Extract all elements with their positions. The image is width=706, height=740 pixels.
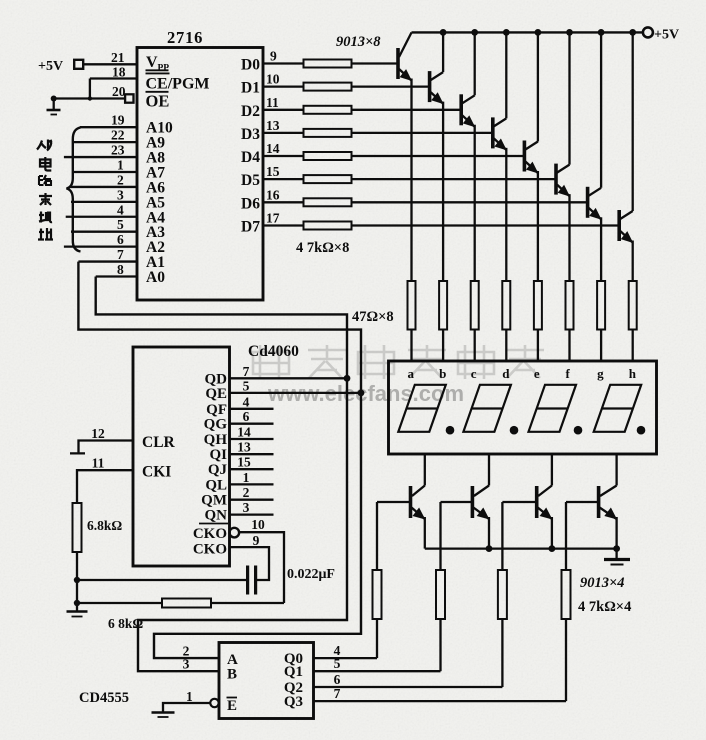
svg-text:QF: QF bbox=[206, 402, 227, 418]
wire: R27 to display segment h bbox=[632, 330, 634, 362]
resistor R22 47 ohm bbox=[471, 281, 479, 330]
wire: R32 down to CD4555 Q2 bbox=[501, 619, 503, 687]
wire: base V10 to resistor column bbox=[441, 501, 473, 503]
svg-text:CKI: CKI bbox=[142, 464, 171, 481]
digit 2 decimal point bbox=[510, 426, 519, 435]
resistor R27 47 ohm bbox=[629, 281, 637, 330]
resistor R26 47 ohm bbox=[597, 281, 605, 330]
transistor V5 9013 base bar bbox=[523, 141, 527, 172]
wire: R24 to display segment e bbox=[537, 330, 539, 362]
junction: rail / collector V4 bbox=[503, 29, 510, 36]
wire: D6 to base resistor R16 bbox=[263, 201, 304, 203]
wire: D5 to base resistor R15 bbox=[263, 178, 304, 180]
svg-text:19: 19 bbox=[111, 113, 125, 128]
wire: D3 to base resistor R13 bbox=[263, 132, 304, 134]
+5V terminal (right) bbox=[643, 27, 653, 37]
junction: rail / collector V6 bbox=[566, 29, 573, 36]
junction: QE output on A0 route bbox=[358, 390, 365, 397]
junction rail/V10 emitter bbox=[486, 545, 493, 552]
junction: QD output on A1 route bbox=[344, 375, 351, 382]
digit 3 decimal point bbox=[574, 426, 583, 435]
transistor V9 emitter with arrow bbox=[412, 508, 425, 520]
wire: CLR pin 12 stub contact bbox=[70, 441, 133, 454]
ground for E-bar bbox=[152, 711, 175, 714]
wire: QH output (pin 14) bbox=[230, 438, 274, 440]
wire: CKO-bar pin 10 to RC network bbox=[239, 532, 285, 603]
junction: rail / collector V2 bbox=[440, 29, 447, 36]
svg-text:14: 14 bbox=[237, 425, 251, 440]
svg-text:3: 3 bbox=[243, 500, 250, 515]
wire: base V12 to resistor column bbox=[566, 501, 599, 503]
svg-text:3: 3 bbox=[117, 187, 124, 202]
junction pin18/OE net bbox=[88, 96, 92, 100]
wire: emitter of V8 down to 47ohm resistor bbox=[632, 241, 634, 282]
svg-text:g: g bbox=[597, 366, 604, 381]
svg-text:h: h bbox=[629, 366, 637, 381]
svg-text:D7: D7 bbox=[241, 219, 260, 236]
resistor R25 47 ohm bbox=[566, 281, 574, 330]
wire: resistor R10 to transistor V1 base bbox=[352, 62, 399, 64]
wire: collector of V6 to +5V rail bbox=[568, 32, 570, 164]
wire: R25 to display segment f bbox=[568, 330, 570, 362]
svg-text:4 7kΩ×4: 4 7kΩ×4 bbox=[578, 599, 631, 615]
svg-text:5: 5 bbox=[117, 217, 124, 232]
wire: R21 to display segment b bbox=[442, 330, 444, 362]
wire: resistor R16 to transistor V7 base bbox=[352, 201, 588, 203]
wire: resistor column 2 riser bbox=[439, 502, 441, 570]
transistor V2 collector bbox=[431, 72, 444, 80]
transistor V1 emitter with arrow bbox=[399, 69, 412, 81]
wire: QD output (pin 7) bbox=[230, 377, 348, 379]
wire: display digit 2 common to transistor V10 bbox=[488, 454, 490, 486]
junction: feedback resistor net bbox=[74, 600, 80, 606]
svg-text:D2: D2 bbox=[241, 103, 260, 120]
svg-text:6: 6 bbox=[117, 232, 124, 247]
svg-text:V: V bbox=[146, 54, 158, 71]
digit 1 seven-segment outline bbox=[398, 385, 446, 432]
svg-text:6 8kΩ: 6 8kΩ bbox=[108, 616, 143, 631]
resistor R20 47 ohm bbox=[408, 281, 416, 330]
ground for oscillator bbox=[67, 610, 88, 613]
svg-text:7: 7 bbox=[334, 686, 341, 701]
resistor R15 4.7k base resistor bbox=[304, 175, 352, 183]
wire: QJ output (pin 15) bbox=[230, 468, 274, 470]
wire: R5 to CKO-bar vertical bbox=[211, 602, 284, 604]
svg-text:15: 15 bbox=[237, 455, 251, 470]
transistor V7 collector bbox=[589, 188, 602, 196]
wire: 2716 A1 select route (down-right-down) bbox=[78, 262, 361, 659]
transistor V3 emitter with arrow bbox=[462, 115, 475, 127]
svg-text:CKO: CKO bbox=[193, 542, 227, 558]
wire: resistor R13 to transistor V4 base bbox=[352, 132, 493, 134]
transistor V1 collector bbox=[399, 33, 412, 58]
transistor V8 9013 base bar bbox=[617, 210, 621, 241]
svg-text:4 7kΩ×8: 4 7kΩ×8 bbox=[296, 240, 349, 256]
wire: A0 lead bbox=[96, 275, 137, 277]
wire: Q2 (pin 6) to digit resistor 3 bbox=[314, 686, 503, 688]
svg-text:13: 13 bbox=[237, 440, 251, 455]
svg-text:5: 5 bbox=[243, 378, 250, 393]
svg-text:9013×4: 9013×4 bbox=[580, 575, 625, 591]
svg-text:QH: QH bbox=[204, 432, 228, 448]
transistor V9 9013 base bar bbox=[409, 486, 413, 518]
wire: QM output (pin 2) bbox=[230, 499, 274, 501]
wire: ground node to feedback resistor R5 bbox=[77, 602, 162, 604]
svg-text:D1: D1 bbox=[241, 80, 260, 97]
svg-text:13: 13 bbox=[266, 118, 280, 133]
wire: ground node to capacitor C1 bbox=[77, 579, 246, 581]
transistor V2 emitter with arrow bbox=[431, 92, 444, 104]
wire: emitter V10 to common rail bbox=[488, 517, 490, 549]
digit 4 decimal point bbox=[637, 426, 646, 435]
wire: emitter V11 to common rail bbox=[551, 517, 553, 549]
wire: Q0 (pin 4) to digit resistor 1 bbox=[314, 657, 378, 659]
wire: resistor R11 to transistor V2 base bbox=[352, 85, 430, 87]
wire: Q3 (pin 7) to digit resistor 4 bbox=[314, 700, 567, 702]
svg-text:4: 4 bbox=[117, 202, 124, 217]
E-bar bubble (pin 1) bbox=[210, 699, 218, 707]
capacitor C1 0.022uF bbox=[246, 566, 249, 595]
wire: collector of V5 to +5V rail bbox=[537, 32, 539, 141]
resistor R32 4.7k digit base resistor bbox=[498, 570, 507, 619]
transistor V7 emitter with arrow bbox=[589, 208, 602, 220]
wire: emitter of V7 down to 47ohm resistor bbox=[600, 217, 602, 281]
wire: CKO pin 9 to capacitor bbox=[230, 547, 270, 580]
svg-text:23: 23 bbox=[111, 143, 125, 158]
svg-text:22: 22 bbox=[111, 128, 125, 143]
resistor R16 4.7k base resistor bbox=[304, 198, 352, 206]
wire: R4 to ground node bbox=[76, 552, 78, 612]
svg-text:QG: QG bbox=[204, 417, 228, 433]
svg-text:CE/PGM: CE/PGM bbox=[146, 76, 210, 93]
transistor V3 collector bbox=[462, 95, 475, 103]
svg-text:16: 16 bbox=[266, 187, 280, 202]
caption glyph DI (ground) bbox=[39, 212, 52, 223]
wire: emitter of V5 down to 47ohm resistor bbox=[537, 171, 539, 281]
wire: collector of V8 to +5V rail bbox=[632, 32, 634, 211]
digit 1 decimal point bbox=[446, 426, 455, 435]
wire: R33 down to CD4555 Q3 bbox=[565, 619, 567, 701]
svg-text:1: 1 bbox=[186, 689, 193, 704]
junction rail/V12 emitter bbox=[613, 545, 620, 552]
svg-text:9013×8: 9013×8 bbox=[336, 34, 381, 50]
svg-text:a: a bbox=[408, 366, 415, 381]
svg-text:10: 10 bbox=[266, 72, 280, 87]
svg-text:E: E bbox=[227, 698, 237, 714]
wire: D7 to base resistor R17 bbox=[263, 224, 304, 226]
svg-text:QM: QM bbox=[201, 493, 227, 509]
svg-text:7: 7 bbox=[243, 364, 250, 379]
resistor R14 4.7k base resistor bbox=[304, 152, 352, 160]
junction: rail / collector V8 bbox=[629, 29, 636, 36]
OE active-low bubble on 2716 bbox=[125, 94, 133, 102]
wire: resistor column 4 riser bbox=[565, 502, 567, 570]
svg-text:11: 11 bbox=[266, 95, 279, 110]
svg-text:b: b bbox=[439, 366, 446, 381]
wire: QN output (pin 3) bbox=[230, 513, 274, 515]
svg-text:7: 7 bbox=[117, 247, 124, 262]
svg-text:6: 6 bbox=[243, 409, 250, 424]
wire: CKI pin 11 to timing resistor bbox=[77, 470, 133, 503]
svg-text:OE: OE bbox=[146, 92, 170, 111]
transistor V4 9013 base bar bbox=[491, 117, 495, 148]
transistor V8 emitter with arrow bbox=[620, 231, 633, 243]
svg-text:10: 10 bbox=[251, 517, 265, 532]
digit 2 seven-segment outline bbox=[463, 385, 511, 432]
svg-text:1: 1 bbox=[117, 157, 124, 172]
resistor R5 6.8k feedback bbox=[162, 599, 211, 608]
junction rail/V11 emitter bbox=[549, 545, 556, 552]
wire: A6 lead bbox=[69, 186, 137, 188]
wire: display digit 1 common to transistor V9 bbox=[424, 454, 426, 486]
wire: D1 to base resistor R11 bbox=[263, 85, 304, 87]
caption glyph LAI (come) bbox=[39, 193, 52, 205]
caption glyph DIAN (electric) bbox=[40, 157, 51, 171]
svg-text:6: 6 bbox=[334, 672, 341, 687]
svg-text:2: 2 bbox=[117, 172, 124, 187]
junction: rail / collector V7 bbox=[598, 29, 605, 36]
svg-text:QN: QN bbox=[205, 508, 228, 524]
svg-text:D6: D6 bbox=[241, 195, 260, 212]
wire: R31 down to CD4555 Q1 bbox=[439, 619, 441, 671]
wire: emitter of V1 down to 47ohm resistor bbox=[410, 79, 412, 282]
resistor R31 4.7k digit base resistor bbox=[436, 570, 445, 619]
wire: A10 lead bbox=[80, 126, 137, 128]
wire: resistor R12 to transistor V3 base bbox=[352, 109, 462, 111]
resistor R12 4.7k base resistor bbox=[304, 106, 352, 114]
wire: A2 lead bbox=[64, 245, 137, 247]
resistor R11 4.7k base resistor bbox=[304, 83, 352, 91]
wire: resistor column 1 riser bbox=[376, 502, 378, 570]
transistor V6 9013 base bar bbox=[554, 164, 558, 195]
resistor R30 4.7k digit base resistor bbox=[373, 570, 382, 619]
svg-text:4: 4 bbox=[243, 394, 250, 409]
svg-text:Q3: Q3 bbox=[284, 694, 303, 710]
resistor R10 4.7k base resistor bbox=[304, 60, 352, 68]
svg-text:2716: 2716 bbox=[167, 28, 203, 47]
IC U1 2716 EPROM body bbox=[137, 48, 263, 301]
ground for CE/OE bbox=[53, 99, 55, 110]
transistor V12 emitter with arrow bbox=[600, 508, 617, 520]
svg-text:B: B bbox=[227, 667, 237, 683]
junction: capacitor net bbox=[74, 577, 80, 583]
svg-text:QD: QD bbox=[205, 371, 228, 387]
svg-text:12: 12 bbox=[91, 426, 105, 441]
wire: emitter V12 to common rail bbox=[615, 517, 617, 549]
wire: QE output (pin 5) bbox=[230, 392, 362, 394]
svg-text:QJ: QJ bbox=[208, 462, 228, 478]
wire: base V9 to resistor column bbox=[377, 501, 411, 503]
caption glyph LU (circuit) bbox=[39, 175, 51, 185]
transistor V10 collector bbox=[474, 486, 489, 497]
wire: collector of V7 to +5V rail bbox=[600, 32, 602, 187]
svg-text:15: 15 bbox=[266, 164, 280, 179]
wire: collector of V4 to +5V rail bbox=[505, 32, 507, 118]
IC U3 CD4555 body bbox=[219, 643, 314, 719]
svg-text:14: 14 bbox=[266, 141, 280, 156]
wire: pin18 drop to OE net bbox=[89, 79, 91, 99]
caption glyph ZHI (site) bbox=[38, 228, 53, 240]
wire: collector of V2 to +5V rail bbox=[442, 32, 444, 72]
transistor V4 emitter with arrow bbox=[494, 138, 507, 150]
svg-text:+5V: +5V bbox=[654, 28, 679, 43]
resistor R21 47 ohm bbox=[439, 281, 447, 330]
svg-text:47Ω×8: 47Ω×8 bbox=[352, 309, 394, 325]
svg-text:9: 9 bbox=[253, 533, 260, 548]
junction: rail / collector V3 bbox=[471, 29, 478, 36]
wire: emitter of V6 down to 47ohm resistor bbox=[568, 194, 570, 281]
wire: R20 to display segment a bbox=[410, 330, 412, 362]
transistor V11 collector bbox=[538, 486, 552, 497]
transistor V7 9013 base bar bbox=[586, 187, 590, 218]
svg-text:Q1: Q1 bbox=[284, 664, 303, 680]
wire: A7 lead bbox=[73, 171, 137, 173]
transistor V11 9013 base bar bbox=[535, 486, 539, 518]
junction at ground tap bbox=[51, 96, 57, 102]
junction: rail / collector V5 bbox=[535, 29, 542, 36]
resistor R23 47 ohm bbox=[502, 281, 510, 330]
ground for digit drivers bbox=[615, 549, 617, 559]
wire: resistor R17 to transistor V8 base bbox=[352, 224, 620, 226]
transistor V12 9013 base bar bbox=[597, 486, 601, 518]
svg-text:PP: PP bbox=[158, 64, 170, 74]
svg-text:QL: QL bbox=[205, 477, 227, 493]
svg-text:e: e bbox=[534, 366, 540, 381]
svg-text:2: 2 bbox=[243, 485, 250, 500]
digit 4 seven-segment outline bbox=[594, 385, 642, 432]
svg-text:5: 5 bbox=[334, 656, 341, 671]
brace for external address lines bbox=[67, 128, 81, 252]
transistor V6 collector bbox=[557, 165, 570, 173]
svg-text:11: 11 bbox=[92, 456, 105, 471]
svg-text:Cd4060: Cd4060 bbox=[248, 343, 299, 360]
wire: QG output (pin 6) bbox=[230, 423, 274, 425]
wire: collector of V3 to +5V rail bbox=[474, 32, 476, 95]
svg-text:c: c bbox=[471, 366, 477, 381]
wire: A1 lead bbox=[78, 260, 137, 262]
wire: OE net to ground tap bbox=[54, 97, 126, 99]
svg-text:QE: QE bbox=[205, 386, 227, 402]
svg-text:20: 20 bbox=[112, 84, 126, 99]
wire: R22 to display segment c bbox=[474, 330, 476, 362]
svg-text:3: 3 bbox=[183, 657, 190, 672]
svg-text:21: 21 bbox=[111, 50, 125, 65]
svg-text:8: 8 bbox=[117, 262, 124, 277]
4-digit LED display module body bbox=[389, 361, 657, 454]
svg-text:17: 17 bbox=[266, 211, 280, 226]
wire: D2 to base resistor R12 bbox=[263, 109, 304, 111]
wire: Q1 (pin 5) to digit resistor 2 bbox=[314, 670, 441, 672]
transistor V3 9013 base bar bbox=[459, 94, 463, 125]
wire: 2716 pin 18 (CE/PGM) bbox=[90, 77, 137, 79]
resistor R4 6.8k (timing) bbox=[73, 503, 82, 552]
svg-text:D3: D3 bbox=[241, 126, 260, 143]
svg-text:D0: D0 bbox=[241, 57, 260, 74]
transistor V12 collector bbox=[600, 486, 617, 497]
wire: emitter of V4 down to 47ohm resistor bbox=[505, 148, 507, 281]
wire: QF output (pin 4) bbox=[230, 408, 274, 410]
wire: emitter of V2 down to 47ohm resistor bbox=[442, 102, 444, 281]
resistor R24 47 ohm bbox=[534, 281, 542, 330]
svg-text:D5: D5 bbox=[241, 172, 260, 189]
svg-text:QI: QI bbox=[209, 447, 227, 463]
svg-text:0.022μF: 0.022μF bbox=[287, 567, 335, 582]
transistor V6 emitter with arrow bbox=[557, 185, 570, 197]
wire: R26 to display segment g bbox=[600, 330, 602, 362]
caption glyph WAI (outside) bbox=[37, 140, 52, 151]
wire: resistor R15 to transistor V6 base bbox=[352, 178, 557, 180]
wire: resistor column 3 riser bbox=[501, 502, 503, 570]
wire: +5V terminal to 2716 pin 21 bbox=[83, 63, 137, 65]
wire: A8 lead bbox=[64, 156, 137, 158]
transistor V5 collector bbox=[525, 142, 538, 150]
wire: A4 lead bbox=[66, 216, 137, 218]
svg-text:A0: A0 bbox=[146, 269, 165, 286]
wire: A9 lead bbox=[73, 141, 137, 143]
svg-text:CD4555: CD4555 bbox=[79, 690, 129, 706]
svg-text:D4: D4 bbox=[241, 149, 260, 166]
resistor R33 4.7k digit base resistor bbox=[562, 570, 571, 619]
wire: display digit 4 common to transistor V12 bbox=[615, 454, 617, 486]
wire: base V11 to resistor column bbox=[502, 501, 536, 503]
+5V rail (top) bbox=[412, 31, 644, 33]
wire: display digit 3 common to transistor V11 bbox=[551, 454, 553, 486]
transistor V10 emitter with arrow bbox=[473, 508, 489, 520]
transistor V11 emitter with arrow bbox=[538, 508, 552, 520]
wire: R30 down to CD4555 Q0 bbox=[376, 619, 378, 658]
+5V terminal (left) bbox=[74, 60, 83, 69]
svg-text:6.8kΩ: 6.8kΩ bbox=[87, 518, 122, 533]
svg-text:CKO: CKO bbox=[193, 526, 227, 542]
wire: D4 to base resistor R14 bbox=[263, 155, 304, 157]
digit 3 seven-segment outline bbox=[529, 385, 577, 432]
wire: E-bar to ground bbox=[163, 703, 210, 713]
svg-text:d: d bbox=[502, 366, 510, 381]
transistor V2 9013 base bar bbox=[428, 71, 432, 102]
wire: QI output (pin 13) bbox=[230, 453, 274, 455]
svg-text:18: 18 bbox=[112, 65, 126, 80]
svg-text:+5V: +5V bbox=[38, 59, 63, 74]
resistor R17 4.7k base resistor bbox=[304, 222, 352, 230]
wire: D0 to base resistor R10 bbox=[263, 62, 304, 64]
wire: A3 lead bbox=[71, 231, 137, 233]
common emitter rail of digit drivers bbox=[425, 547, 617, 549]
CKO-bar bubble (pin 10) bbox=[230, 528, 240, 538]
transistor V10 9013 base bar bbox=[471, 486, 475, 518]
transistor V1 9013 base bar bbox=[396, 48, 400, 79]
wire: resistor R14 to transistor V5 base bbox=[352, 155, 525, 157]
svg-text:f: f bbox=[566, 366, 571, 381]
wire: collector of V1 to +5V rail bbox=[410, 31, 412, 33]
transistor V4 collector bbox=[494, 118, 507, 126]
svg-text:1: 1 bbox=[243, 470, 250, 485]
transistor V5 emitter with arrow bbox=[525, 162, 538, 174]
wire: emitter of V3 down to 47ohm resistor bbox=[474, 125, 476, 281]
IC U2 CD4060 body bbox=[133, 347, 230, 566]
wire: R23 to display segment d bbox=[505, 330, 507, 362]
wire: A5 lead bbox=[71, 201, 137, 203]
transistor V8 collector bbox=[620, 211, 633, 219]
wire: QL output (pin 1) bbox=[230, 483, 274, 485]
transistor V9 collector bbox=[412, 486, 425, 497]
svg-text:CLR: CLR bbox=[142, 434, 176, 451]
resistor R13 4.7k base resistor bbox=[304, 129, 352, 137]
wire: 2716 A0 select route (down-right-down) bbox=[96, 277, 347, 672]
wire: emitter V9 to common rail bbox=[424, 517, 426, 549]
svg-text:9: 9 bbox=[270, 49, 277, 64]
